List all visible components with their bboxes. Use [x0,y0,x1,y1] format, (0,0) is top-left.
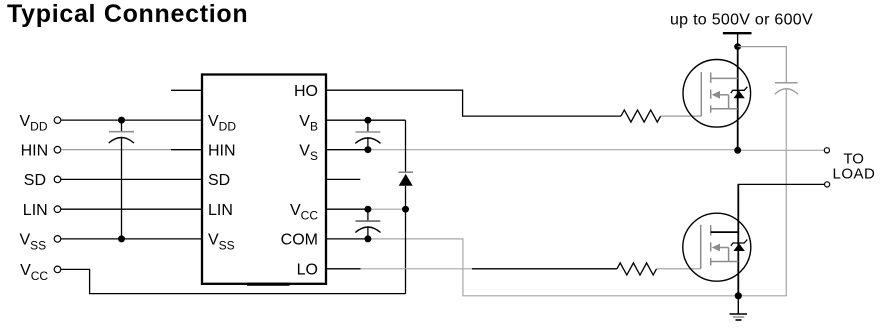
wire R2 to Q2 gate [657,268,701,270]
wire VCC input run (right, down, along bottom) [61,269,406,293]
svg-text:Typical Connection: Typical Connection [7,0,248,28]
diode D1 bootstrap cathode bar [399,171,414,173]
capacitor C3 curved plate [355,227,380,233]
svg-text:LOAD: LOAD [833,166,876,183]
svg-text:VB: VB [299,113,318,134]
wire stub right of SD row [326,178,360,180]
junction VB/C2 [364,117,371,124]
capacitor C2 lead (bootstrap VB-VS) [367,120,369,131]
terminal VSS [54,236,61,243]
junction VS/C2 [364,146,371,153]
wire HIN to IC (dark portion) [171,149,202,151]
transistor Q1 drain wire [737,47,739,151]
svg-text:up to 500V or 600V: up to 500V or 600V [670,12,813,29]
terminal SD [54,176,61,183]
wire VDD input to IC [61,119,202,121]
wire VCC junction to diode riser (light) [368,208,406,210]
terminal LIN [54,206,61,213]
svg-text:VSS: VSS [20,232,47,253]
junction supply node [734,43,741,50]
junction VDD/C1 [118,117,125,124]
IC bottom tab notch [247,283,290,286]
wire LIN input to IC [61,208,202,210]
load terminal upper [824,148,829,153]
capacitor C2 curved plate [355,138,380,144]
wire HO pin to gate resistor (with step) [326,90,621,116]
body diode of Q1 cathode line [731,87,747,93]
junction VSS/C1 [118,235,125,242]
transistor Q2 internals [701,225,739,269]
wire VS pin to C2 junction [326,149,368,151]
svg-text:VCC: VCC [20,262,48,283]
svg-text:HIN: HIN [208,142,236,159]
wire COM net to ground run (light) [368,239,787,296]
svg-text:VS: VS [299,142,318,163]
wire bus capacitor to ground run [785,89,787,296]
wire LO pin to gate resistor [326,268,361,270]
svg-text:VDD: VDD [20,113,48,134]
junction VCC/D1 riser [402,206,409,213]
resistor R2 (low side gate) [617,263,657,275]
svg-text:VSS: VSS [208,232,235,253]
svg-text:LIN: LIN [23,202,48,219]
svg-text:HO: HO [294,83,318,100]
IC U1 gate driver body [202,75,326,284]
capacitor C2 top plate [356,131,381,133]
terminal HIN [54,146,61,153]
svg-text:HIN: HIN [21,142,49,159]
wire VSS input to IC [61,238,202,240]
wire VS junction to load terminal [738,149,825,151]
junction VS/Q1 source [734,147,741,154]
svg-text:COM: COM [281,232,318,249]
transistor Q1 internals [701,72,737,116]
wire COM pin to C3 junction [326,238,368,240]
wire VB pin to bootstrap riser [326,119,406,121]
wire supply bar to drain node [737,33,739,46]
body diode of Q2 cathode line [731,240,747,246]
terminal VDD [54,117,61,124]
supply rail bar [723,32,752,34]
wire VCC pin to C3 junction [326,208,368,210]
transistor Q2 drain-source wire [737,184,739,295]
wire HIN input to IC (light portion) [61,149,171,151]
transistor Q2 drain tap [711,231,739,233]
wire stub left of HO row [171,89,202,91]
svg-text:SD: SD [208,172,230,189]
svg-text:VDD: VDD [208,113,236,134]
body diode of Q2 triangle [733,243,744,251]
wire SD input to IC [61,178,202,180]
diode D1 bootstrap triangle [399,174,413,186]
wire VS net to load (light) [368,149,738,151]
capacitor C1 lead VDD-VSS [121,120,123,131]
wire supply node to bus capacitor [738,47,787,82]
bootstrap riser wire (VB corner down to VCC junction and bottom VCC run) [405,120,407,172]
transistor Q2 (low side MOSFET) circle [683,213,751,281]
svg-text:SD: SD [24,172,46,189]
svg-text:LO: LO [297,262,318,279]
wire R1 to Q1 gate [661,115,702,117]
wire lower load terminal to Q2 drain [738,184,824,213]
ground symbol [730,313,748,315]
svg-text:VCC: VCC [290,202,318,223]
transistor Q1 (high side MOSFET) circle [683,60,751,128]
junction ground node [735,292,742,299]
capacitor C3 lead (VCC-COM) [367,209,369,220]
capacitor C1 top plate [109,131,134,133]
capacitor C3 top plate [356,220,381,222]
junction COM/C3 [364,235,371,242]
body diode of Q1 triangle [733,91,744,99]
resistor R1 (high side gate) [621,110,661,122]
capacitor C4 top plate (bus) [775,82,798,84]
transistor Q1 body arrow [712,91,720,99]
load terminal lower [825,182,830,187]
transistor Q2 body arrow [712,244,720,252]
junction VCC/C3 [364,206,371,213]
capacitor C4 curved plate (bus) [775,89,798,95]
capacitor C1 curved plate [109,138,134,144]
svg-text:LIN: LIN [208,202,233,219]
terminal VCC [54,266,61,273]
ground stem [737,296,739,314]
